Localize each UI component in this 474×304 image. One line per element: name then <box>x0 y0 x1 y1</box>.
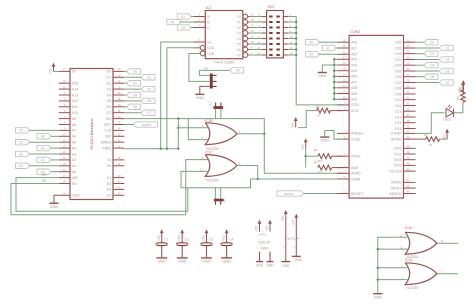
wire ground bus to GND <box>322 65 334 72</box>
jumper JP2 <box>213 106 223 109</box>
svg-text:D13: D13 <box>395 115 401 119</box>
wire CON2 D04 to tag <box>416 64 424 66</box>
svg-text:A7: A7 <box>72 129 76 133</box>
svg-text:CQ4C2P: CQ4C2P <box>258 240 271 244</box>
tag A1 <box>16 163 30 168</box>
svg-text:D0: D0 <box>430 41 434 45</box>
svg-text:IPDAG: IPDAG <box>391 137 402 141</box>
power VCC supply pair <box>259 222 261 232</box>
svg-text:A2: A2 <box>72 158 76 162</box>
svg-text:WR: WR <box>72 176 78 180</box>
tag D0 <box>127 69 141 74</box>
connector SV2 body <box>267 11 284 58</box>
svg-text:D0: D0 <box>107 70 111 74</box>
wire IORQ net from backplane <box>124 148 178 150</box>
wire JP1 pin1 to tag <box>199 70 229 75</box>
svg-text:A5: A5 <box>181 26 185 30</box>
tag A1 / wire to CON2 A01 <box>322 45 336 50</box>
svg-text:A15: A15 <box>72 82 78 86</box>
wire CON2 D02 to tag <box>416 53 424 55</box>
svg-text:A2: A2 <box>41 158 45 162</box>
svg-text:GND: GND <box>222 260 231 264</box>
svg-text:PRES: PRES <box>351 155 361 159</box>
wire R6 to CON2 ICS1 <box>331 110 344 112</box>
power +5V backplane supply arrow <box>53 65 55 71</box>
ground (backplane) <box>49 202 58 204</box>
tag D0 (CON2) <box>424 40 438 45</box>
svg-text:D02: D02 <box>395 52 401 56</box>
wire RD net: backplane RD across bottom up to gate IC1C input <box>11 160 209 215</box>
svg-text:A05: A05 <box>351 69 357 73</box>
wire JP2 pins down to M1 net <box>215 109 217 119</box>
op IC2 74HCT138N decoder body <box>205 11 243 59</box>
svg-text:+5V: +5V <box>157 235 161 242</box>
wire tag A1 to pin <box>30 165 59 167</box>
jumper JP3 <box>214 199 224 202</box>
svg-text:D6: D6 <box>430 75 434 79</box>
svg-text:R2: R2 <box>314 160 318 164</box>
svg-text:R6: R6 <box>316 105 320 109</box>
svg-text:A1: A1 <box>72 164 76 168</box>
wire CON2 D06 to tag <box>416 76 424 78</box>
svg-text:A1: A1 <box>19 164 23 168</box>
svg-text:A3: A3 <box>19 152 23 156</box>
svg-text:ATASEL: ATASEL <box>351 132 364 136</box>
power +5V (R7) <box>446 131 448 139</box>
svg-text:5V: 5V <box>72 70 77 74</box>
svg-text:Y3: Y3 <box>237 31 241 35</box>
wire IC1D output <box>437 242 458 244</box>
svg-text:1K: 1K <box>429 143 433 147</box>
svg-text:D09: D09 <box>395 92 401 96</box>
svg-text:D4: D4 <box>133 93 137 97</box>
wire LED1 to R3 <box>453 102 463 112</box>
wire tag A2 to pin <box>51 159 59 161</box>
svg-text:GND: GND <box>266 263 274 267</box>
svg-text:GND: GND <box>196 96 205 100</box>
svg-text:D3: D3 <box>107 87 111 91</box>
svg-text:D6: D6 <box>133 105 137 109</box>
svg-text:470: 470 <box>456 96 460 101</box>
wire M1 net: backplane M1 across, down, to CF IORD pin <box>124 119 343 174</box>
svg-text:74HCT138N: 74HCT138N <box>214 60 234 64</box>
wire tag A7 to pin <box>30 129 59 131</box>
wire tag A6 to pin <box>51 135 59 137</box>
wire pin D0 to tag <box>124 70 126 72</box>
svg-text:D2: D2 <box>107 82 111 86</box>
svg-text:SV2: SV2 <box>268 5 275 9</box>
svg-text:IC1B: IC1B <box>205 119 212 123</box>
wire CON2 D00 to tag <box>416 41 424 43</box>
svg-text:A07: A07 <box>351 80 357 84</box>
wire CON2 D01 to tag <box>416 47 440 49</box>
svg-text:4K7: 4K7 <box>318 171 324 175</box>
diode LED1 <box>446 109 453 117</box>
svg-text:D6: D6 <box>107 105 111 109</box>
svg-text:INPACK: INPACK <box>389 192 402 196</box>
svg-text:GND: GND <box>282 264 290 268</box>
svg-text:A10: A10 <box>351 98 357 102</box>
power +5V (LED1) <box>462 84 464 91</box>
svg-text:A13: A13 <box>72 93 78 97</box>
svg-text:A6: A6 <box>41 135 45 139</box>
wire gate IC1B input B <box>188 119 208 140</box>
tag D6 (CON2) <box>424 74 438 79</box>
wire pin D4 to tag <box>124 94 126 96</box>
wire CON2 D07 to tag <box>416 82 440 84</box>
svg-text:MREQ: MREQ <box>101 141 112 145</box>
svg-text:A4: A4 <box>41 146 45 150</box>
wire JP3 pins up to jumper line <box>214 188 216 199</box>
capacitor C2 with +5V and ground <box>181 232 183 243</box>
svg-text:A4: A4 <box>72 146 76 150</box>
svg-text:D7: D7 <box>445 81 449 85</box>
svg-text:D06: D06 <box>395 75 401 79</box>
power +5V (CON2 area) <box>462 83 464 94</box>
svg-text:4K7: 4K7 <box>318 159 324 163</box>
svg-text:IORDY: IORDY <box>391 186 402 190</box>
wire +5V to backplane 5V pin <box>54 70 59 72</box>
wire pin D2 to tag <box>124 82 126 84</box>
svg-text:D4: D4 <box>430 64 434 68</box>
svg-text:GND: GND <box>374 295 383 299</box>
tag D4 <box>127 92 141 97</box>
svg-text:Y5: Y5 <box>237 42 241 46</box>
ground (unused gate inputs) <box>373 293 382 295</box>
wire CON2 IPDAG to R7 <box>416 138 418 140</box>
jumper JP1 (3-pin select) <box>210 74 213 89</box>
tag RESET (CON2) <box>277 191 304 196</box>
svg-text:+5V: +5V <box>291 122 295 129</box>
svg-text:IOWR: IOWR <box>351 177 361 181</box>
svg-text:GND: GND <box>261 247 269 251</box>
or-gate IC1B 74LS32N <box>205 123 237 145</box>
svg-text:ICS1: ICS1 <box>351 109 359 113</box>
svg-text:D08: D08 <box>395 87 401 91</box>
svg-text:A04: A04 <box>351 63 357 67</box>
tag A4 / wire to IC2 pin B <box>167 19 181 24</box>
wire tag A5 to pin <box>30 141 59 143</box>
svg-text:D4: D4 <box>107 93 111 97</box>
power +5V (R1 R2) <box>305 141 307 149</box>
svg-text:IRESET: IRESET <box>351 192 363 196</box>
svg-text:IC1C: IC1C <box>205 151 213 155</box>
svg-text:GND: GND <box>157 260 166 264</box>
power IC1P IC2P supply pins <box>285 212 287 261</box>
wire SV2 right-side bus down to CF ICS0 <box>288 17 343 105</box>
svg-text:R7: R7 <box>424 133 428 137</box>
svg-text:INTRQ: INTRQ <box>391 181 402 185</box>
svg-text:G2A: G2A <box>207 46 215 50</box>
wire JP1 pin2 to G2B <box>189 54 210 82</box>
svg-text:D7: D7 <box>147 111 151 115</box>
capacitor C1 with +5V and ground <box>161 232 163 243</box>
CON2 right pins <box>404 41 416 43</box>
wire +5V down to R1 R2 <box>305 148 307 168</box>
svg-text:GND: GND <box>295 258 303 262</box>
svg-text:IVS1: IVS1 <box>394 147 401 151</box>
svg-text:A9: A9 <box>72 117 76 121</box>
svg-text:A4: A4 <box>171 20 175 24</box>
svg-text:E1: E1 <box>107 176 111 180</box>
svg-text:GND: GND <box>256 263 264 267</box>
tag A7 <box>16 128 30 133</box>
tag A3 <box>16 151 30 156</box>
svg-text:G1: G1 <box>207 40 212 44</box>
wire R1 to CON2 PRES <box>332 155 343 157</box>
svg-text:WR: WR <box>42 173 48 177</box>
resistor R7 1K <box>426 137 440 142</box>
svg-text:D3: D3 <box>445 58 449 62</box>
svg-text:R1: R1 <box>314 148 318 152</box>
tag D7 <box>141 110 155 115</box>
wire IC1C output to CF IOWR <box>237 166 258 180</box>
tag D1 <box>141 75 155 80</box>
or-gate IC1D 74LS32N <box>405 232 437 254</box>
wire IOWR net to CF <box>251 178 344 180</box>
svg-text:G2B: G2B <box>207 52 215 56</box>
wire CON2 D05 to tag <box>416 70 440 72</box>
svg-text:A12: A12 <box>72 99 78 103</box>
svg-text:+5V: +5V <box>202 235 206 242</box>
svg-text:+5V: +5V <box>265 225 269 232</box>
ground (JP1) <box>195 93 204 95</box>
wire pin D7 to tag <box>124 112 141 114</box>
wire IC1A output <box>437 273 458 275</box>
svg-text:D03: D03 <box>395 58 401 62</box>
svg-text:D5: D5 <box>147 99 151 103</box>
IC J1 RC2014 Backplane body <box>70 69 113 200</box>
svg-text:A0: A0 <box>72 170 76 174</box>
svg-text:D04: D04 <box>395 64 401 68</box>
wire gate IC1B input A <box>178 127 208 129</box>
connector CON2 CompactFlash body <box>349 35 403 198</box>
svg-text:RESET: RESET <box>284 192 294 196</box>
tag D2 (CON2) <box>424 51 438 56</box>
svg-text:1K: 1K <box>317 114 321 118</box>
svg-text:Y7: Y7 <box>237 53 241 57</box>
svg-text:CLK: CLK <box>104 129 111 133</box>
svg-text:+5V: +5V <box>177 235 181 242</box>
wire G1 net vertical <box>161 42 194 149</box>
svg-text:GND: GND <box>178 260 187 264</box>
svg-text:D7: D7 <box>107 111 111 115</box>
svg-text:A2: A2 <box>309 53 313 57</box>
svg-text:A3: A3 <box>181 15 185 19</box>
svg-text:R3: R3 <box>464 97 468 101</box>
wire pin D1 to tag <box>124 76 141 78</box>
svg-text:Tx: Tx <box>107 158 111 162</box>
backplane right pins with numbers <box>113 70 124 72</box>
svg-text:A3: A3 <box>72 152 76 156</box>
svg-text:D01: D01 <box>395 46 401 50</box>
svg-text:ICSEL: ICSEL <box>351 137 361 141</box>
svg-text:E2: E2 <box>107 182 111 186</box>
svg-text:CON2: CON2 <box>350 30 360 34</box>
svg-text:Y2: Y2 <box>237 26 241 30</box>
svg-text:D5: D5 <box>445 69 449 73</box>
svg-text:RD: RD <box>72 182 77 186</box>
svg-text:A1: A1 <box>326 46 330 50</box>
resistor R3 470 (vertical) <box>461 90 465 102</box>
svg-text:Y1: Y1 <box>237 20 241 24</box>
wire pin D6 to tag <box>124 106 126 108</box>
svg-text:+5V: +5V <box>292 219 296 226</box>
svg-text:D1: D1 <box>147 76 151 80</box>
wire CON2 D03 to tag <box>416 59 440 61</box>
svg-text:+5V: +5V <box>222 235 226 242</box>
or-gate IC1C 74LS32N <box>205 155 237 177</box>
svg-text:A0: A0 <box>309 41 313 45</box>
wire R2 to CON2 AWE <box>332 167 343 169</box>
wire pin D5 to tag <box>124 100 141 102</box>
wire pin D3 to tag <box>124 88 141 90</box>
svg-text:D11: D11 <box>396 104 402 108</box>
svg-text:+5V: +5V <box>442 134 446 141</box>
power +5V (R6) <box>295 119 297 127</box>
svg-text:A5: A5 <box>19 141 23 145</box>
wire RESET tag to CON2 IRESET <box>304 193 338 195</box>
svg-text:A10: A10 <box>72 111 78 115</box>
svg-text:GND: GND <box>318 74 327 78</box>
tag D5 <box>141 98 155 103</box>
tag D3 (CON2) <box>439 57 453 62</box>
svg-text:C4: C4 <box>229 238 233 242</box>
svg-text:D12: D12 <box>395 110 401 114</box>
resistor R2 4K7 <box>318 165 332 170</box>
svg-text:D0: D0 <box>133 70 137 74</box>
svg-text:AWE: AWE <box>351 166 359 170</box>
svg-text:IORQ: IORQ <box>102 146 111 150</box>
svg-text:C3: C3 <box>209 238 213 242</box>
svg-text:IC1D: IC1D <box>405 226 413 230</box>
svg-text:74LS32N: 74LS32N <box>205 179 219 183</box>
capacitor C4 with +5V and ground <box>226 232 228 243</box>
tag A2 <box>37 157 51 162</box>
wire ground to CON2 ICSEL <box>325 131 343 140</box>
svg-text:D14: D14 <box>395 121 401 125</box>
svg-text:D15: D15 <box>395 127 401 131</box>
wire RST pin to RESET tag <box>124 124 133 126</box>
backplane left pins with numbers <box>59 70 70 72</box>
svg-text:A11: A11 <box>72 105 78 109</box>
svg-text:A14: A14 <box>72 87 78 91</box>
wire tag A4 to pin <box>51 147 59 149</box>
tag A3 / wire to IC2 pin A <box>177 14 191 19</box>
wire WR net: backplane WR down and across bottom <box>16 178 188 212</box>
svg-text:LED1: LED1 <box>443 118 451 122</box>
svg-text:D2: D2 <box>133 82 137 86</box>
svg-text:GND: GND <box>320 139 329 143</box>
CON2 left pins <box>337 41 349 43</box>
IC2 enable pins G1 G2A G2B <box>193 41 205 43</box>
svg-text:+5V: +5V <box>458 87 462 94</box>
svg-text:IC2: IC2 <box>206 6 212 10</box>
tag D7 (CON2) <box>439 80 453 85</box>
svg-text:+5V: +5V <box>301 144 305 151</box>
ground (CON2 address bus) <box>318 72 327 74</box>
wire IC1C input B from jumper line <box>181 171 209 187</box>
svg-text:D2: D2 <box>430 52 434 56</box>
svg-text:VCC: VCC <box>259 232 267 236</box>
svg-text:A09: A09 <box>351 92 357 96</box>
svg-text:A03: A03 <box>351 58 357 62</box>
svg-text:IOADP: IOADP <box>391 132 402 136</box>
svg-text:IC1A: IC1A <box>405 258 413 262</box>
wire junction vertical to IORQ <box>177 119 179 149</box>
svg-text:D05: D05 <box>395 69 401 73</box>
wire unused gate inputs to ground <box>378 237 409 293</box>
svg-text:E4: E4 <box>107 194 111 198</box>
svg-text:D3: D3 <box>147 87 151 91</box>
svg-text:A06: A06 <box>351 75 357 79</box>
ground (ICSEL) <box>320 136 329 138</box>
svg-text:ICS0: ICS0 <box>351 103 359 107</box>
svg-text:A8: A8 <box>236 69 240 73</box>
svg-text:IOCS16: IOCS16 <box>389 169 401 173</box>
tag A5 / wire to IC2 pin C <box>177 25 191 30</box>
svg-text:D07: D07 <box>395 81 401 85</box>
svg-text:IC1P IC2P: IC1P IC2P <box>284 237 299 241</box>
tag D2 <box>127 81 141 86</box>
tag A5 <box>16 140 30 145</box>
tag D6 <box>127 104 141 109</box>
tag A0 <box>37 169 51 174</box>
wire CON2 A03-A10 ground bus <box>333 59 335 99</box>
tag A0 / wire to CON2 A00 <box>306 40 320 45</box>
or-gate IC1A 74LS32N <box>405 263 437 285</box>
tag D1 (CON2) <box>439 45 453 50</box>
tag RESET (backplane) <box>133 122 157 127</box>
svg-text:GND: GND <box>50 205 59 209</box>
svg-text:A08: A08 <box>351 86 357 90</box>
SV2 pads and pins <box>269 16 272 18</box>
wire G2A net vertical <box>167 48 200 149</box>
tag D3 <box>141 86 155 91</box>
svg-text:RD: RD <box>42 179 47 183</box>
svg-text:JP2: JP2 <box>209 101 213 106</box>
svg-text:INT: INT <box>106 135 111 139</box>
tag A2 / wire to CON2 A02 <box>306 52 320 57</box>
svg-text:D5: D5 <box>107 99 111 103</box>
svg-text:RC2014 Backplane: RC2014 Backplane <box>90 119 94 150</box>
svg-text:ADRD: ADRD <box>351 172 361 176</box>
svg-text:Y6: Y6 <box>237 48 241 52</box>
tag D5 (CON2) <box>439 68 453 73</box>
resistor R6 1K <box>317 108 331 113</box>
IC2 input pins A B C <box>193 16 205 18</box>
svg-text:A00: A00 <box>351 41 357 45</box>
svg-text:A8: A8 <box>72 123 76 127</box>
svg-text:+5V: +5V <box>49 68 53 75</box>
wire R6 to +5V <box>298 111 317 128</box>
wire JP1 pin3 to ground <box>200 86 210 93</box>
svg-text:Y0: Y0 <box>237 15 241 19</box>
svg-text:IVS2: IVS2 <box>394 152 401 156</box>
svg-text:Y4: Y4 <box>237 37 241 41</box>
svg-text:A01: A01 <box>351 46 357 50</box>
svg-text:RST: RST <box>104 123 111 127</box>
svg-text:+5V: +5V <box>255 225 259 232</box>
svg-text:D1: D1 <box>107 76 111 80</box>
wire CON2 IOADP to LED1 <box>416 113 445 134</box>
svg-text:74LS32N: 74LS32N <box>405 286 419 290</box>
wire tag A3 to pin <box>30 153 59 155</box>
tag D4 (CON2) <box>424 63 438 68</box>
svg-text:JP3: JP3 <box>223 198 227 203</box>
svg-text:IVD2: IVD2 <box>394 164 402 168</box>
svg-text:D1: D1 <box>445 46 449 50</box>
